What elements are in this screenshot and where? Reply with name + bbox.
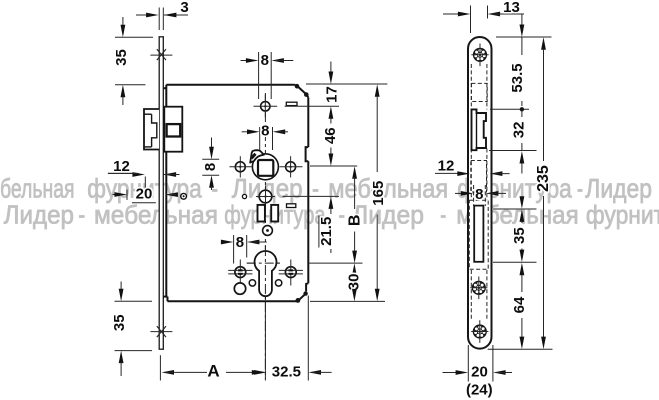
screw mark top on faceplate	[150, 54, 172, 56]
hidden follower pocket dashed rect	[471, 161, 487, 193]
hidden latch pocket dashed rect	[471, 83, 487, 101]
dim A backset	[159, 355, 161, 380]
dim 32.5	[254, 370, 267, 375]
small slot right of upper hole	[286, 102, 297, 105]
latch spring block	[167, 124, 181, 136]
svg-text:35: 35	[511, 227, 528, 244]
dim 8 slot width	[455, 192, 462, 194]
ext line plate bottom right	[488, 348, 553, 350]
hidden slot edges dashed	[473, 185, 475, 206]
dim 13 top	[470, 6, 472, 34]
svg-text:12: 12	[113, 158, 130, 175]
svg-text:20: 20	[471, 363, 488, 380]
svg-text:(24): (24)	[466, 382, 493, 399]
bottom screw	[474, 325, 487, 338]
dim 8 upper hole	[258, 52, 260, 99]
left stop lug	[258, 205, 265, 222]
ext line latch bottom	[489, 150, 537, 152]
follower left fixing hole	[235, 162, 245, 172]
extension line case bottom right	[310, 300, 385, 302]
ext line mid	[493, 208, 537, 210]
dim 35 right view	[520, 209, 525, 222]
dim 20 (24) bottom	[467, 345, 469, 382]
svg-text:21.5: 21.5	[318, 217, 335, 246]
extension line cylinder level	[309, 262, 362, 264]
follower cam lever	[250, 150, 264, 162]
extension line case top right	[306, 83, 387, 85]
ext line cylinder slot bottom area	[493, 261, 537, 263]
svg-text:12: 12	[438, 158, 455, 175]
svg-text:46: 46	[322, 127, 339, 144]
dim 35 bottom left	[115, 300, 153, 302]
follower right fixing hole	[286, 162, 296, 172]
screw mark bottom on faceplate	[150, 331, 172, 333]
centerline re-over cylinder horizontal	[247, 262, 281, 264]
right stop lug	[271, 205, 278, 222]
cylinder slot in faceplate	[474, 206, 483, 262]
small circle left of cylinder stem	[249, 280, 255, 286]
latch bolt front view	[472, 109, 487, 150]
plain hole bottom left	[234, 283, 245, 294]
small screw with dot	[181, 193, 187, 199]
svg-text:235: 235	[535, 165, 552, 192]
dim 30	[352, 263, 357, 276]
small circle right of cylinder stem	[275, 280, 281, 286]
dim 12 latch leader	[108, 172, 137, 174]
svg-text:13: 13	[503, 0, 520, 16]
dim 35 top left	[115, 36, 153, 38]
svg-text:165: 165	[370, 181, 387, 206]
svg-text:8: 8	[236, 234, 244, 251]
svg-text:32: 32	[511, 122, 528, 139]
follower nut circle	[252, 154, 278, 180]
faceplate edge view	[159, 37, 163, 349]
svg-text:64: 64	[511, 296, 528, 313]
svg-text:фурнитура: фурнитура	[586, 200, 659, 230]
svg-text:35: 35	[111, 314, 128, 331]
extension line follower level	[310, 165, 357, 167]
svg-text:20: 20	[136, 185, 153, 202]
cylinder right fixing hole M5	[285, 267, 296, 278]
follower square hole 8mm	[258, 160, 273, 176]
svg-text:-: -	[339, 200, 346, 230]
svg-text:30: 30	[346, 274, 363, 291]
small circle	[242, 194, 246, 198]
dim 64	[520, 263, 525, 276]
notch in right edge	[306, 147, 309, 161]
ext line plate top right	[496, 36, 552, 38]
top screw	[474, 49, 487, 62]
centerline re-over cylinder vertical	[264, 246, 266, 302]
dim 17	[330, 62, 332, 73]
svg-text:17: 17	[323, 86, 340, 103]
svg-text:-: -	[78, 200, 85, 230]
dim 53.5 with chain column	[521, 14, 523, 26]
centerline horizontal cylinder	[247, 262, 281, 264]
svg-text:3: 3	[180, 0, 188, 16]
dim 8 follower square vertical	[202, 158, 219, 160]
extension line upper hole level	[285, 105, 339, 107]
dim 20 leader	[113, 194, 119, 196]
lock case outline	[166, 84, 295, 86]
svg-text:B: B	[347, 215, 364, 227]
hole below follower	[259, 190, 272, 203]
dim 3 faceplate thickness	[136, 14, 155, 16]
svg-text:8: 8	[261, 52, 269, 69]
svg-text:-: -	[440, 200, 446, 230]
middle screw	[473, 282, 486, 295]
dim 165	[375, 84, 380, 97]
dim B	[352, 166, 357, 179]
centerline vertical through follower and cylinder	[264, 93, 266, 379]
svg-text:32.5: 32.5	[272, 363, 301, 380]
svg-text:35: 35	[113, 49, 130, 66]
bottom right corner step and chamfer	[306, 283, 308, 291]
latch bolt head outside faceplate	[144, 109, 159, 150]
dim 21.5	[329, 196, 334, 209]
hidden case edges dashed	[470, 64, 472, 110]
svg-text:8: 8	[202, 163, 219, 171]
dim 8 cylinder holes	[233, 235, 235, 264]
cylinder left fixing hole M5	[235, 267, 246, 278]
dim 8 follower	[259, 127, 261, 150]
svg-text:8: 8	[475, 186, 483, 203]
svg-text:Лидер: Лидер	[4, 200, 74, 230]
hidden cylinder pocket dashed rect	[469, 200, 488, 269]
extension ticks above faceplate	[158, 8, 160, 31]
svg-text:8: 8	[261, 123, 269, 140]
slot right of lugs	[287, 204, 296, 208]
dim unlabeled 50.5 gap	[521, 196, 523, 199]
euro profile cylinder hole	[255, 251, 277, 296]
latch box inside case	[164, 107, 182, 152]
dim 32	[521, 111, 523, 118]
faceplate front view	[468, 37, 492, 349]
svg-text:мебельная: мебельная	[94, 200, 218, 230]
adjuster screw with dot	[263, 226, 273, 236]
upper fixing hole	[261, 102, 270, 111]
extension line lower hole level	[283, 195, 340, 197]
svg-text:A: A	[207, 361, 219, 380]
case left edge	[165, 85, 167, 297]
dim 235 overall	[541, 37, 546, 50]
svg-text:53.5: 53.5	[509, 63, 526, 92]
ext line latch top	[490, 108, 529, 110]
